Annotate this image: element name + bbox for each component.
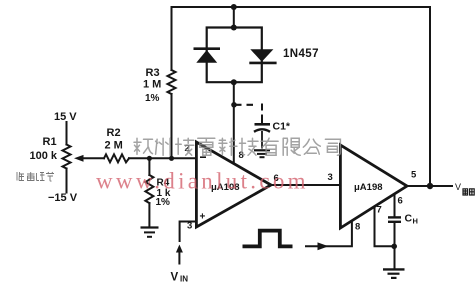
wire: wiper line to R2 bbox=[80, 157, 104, 159]
wire: diode bracket bbox=[207, 28, 262, 83]
wire: diode bridge stem top bbox=[233, 7, 235, 28]
svg-text:6: 6 bbox=[398, 196, 403, 207]
U1 minus bbox=[200, 156, 206, 158]
svg-text:−15 V: −15 V bbox=[48, 192, 78, 204]
wire: pin 3 input bbox=[180, 222, 197, 242]
svg-text:R2: R2 bbox=[107, 127, 121, 139]
svg-text:C1*: C1* bbox=[273, 121, 291, 133]
capacitor C1 plates bbox=[255, 123, 271, 126]
wire: U2 pin 6 to CH bbox=[394, 194, 396, 216]
svg-text:V: V bbox=[171, 272, 179, 284]
svg-text:7: 7 bbox=[377, 205, 382, 216]
VIN input arrow bbox=[176, 245, 183, 253]
pulse waveform symbol bbox=[243, 231, 293, 247]
wire: R1 bottom to -15V bbox=[66, 169, 68, 193]
sample command arrowhead bbox=[318, 242, 329, 250]
svg-text:8: 8 bbox=[355, 222, 360, 233]
ground for CH bbox=[383, 269, 405, 278]
svg-text:1%: 1% bbox=[156, 197, 171, 208]
svg-text:1 M: 1 M bbox=[143, 79, 161, 91]
svg-text:3: 3 bbox=[328, 172, 333, 183]
wire: left vertical above R3 bbox=[171, 7, 173, 70]
wire: right feedback vertical bbox=[429, 7, 431, 186]
op-amp U1 uA108 bbox=[196, 142, 271, 227]
wire: top feedback bus bbox=[172, 6, 431, 8]
ground for C1 bbox=[254, 150, 270, 157]
svg-text:R3: R3 bbox=[146, 67, 160, 79]
svg-text:R1: R1 bbox=[43, 136, 57, 148]
capacitor CH plates bbox=[388, 216, 401, 218]
diode D2 1N457 (right, pointing down) bbox=[249, 49, 276, 63]
svg-text:+: + bbox=[200, 212, 206, 223]
capacitor C1 dashed connection bbox=[236, 104, 253, 106]
wire: R4 to ground bbox=[148, 203, 150, 227]
wire: U2 output bbox=[407, 185, 452, 187]
svg-text:2 M: 2 M bbox=[105, 140, 123, 152]
svg-text:IN: IN bbox=[180, 275, 188, 284]
wire: R4 branch down bbox=[148, 158, 150, 175]
wire: diode bridge stem bottom to pin 8 bbox=[233, 82, 235, 163]
svg-text:100 k: 100 k bbox=[30, 150, 58, 162]
fake glyph: output chinese subscript bbox=[463, 189, 474, 195]
svg-text:μA198: μA198 bbox=[354, 182, 383, 193]
resistor R4 1k bbox=[145, 175, 153, 203]
svg-text:C: C bbox=[405, 213, 413, 225]
svg-text:www.dianlut.com: www.dianlut.com bbox=[96, 169, 309, 194]
wire: R3 bottom to summing node bbox=[171, 94, 173, 158]
watermark: small gray text (bias adjust) bbox=[17, 172, 54, 181]
svg-text:8: 8 bbox=[239, 150, 244, 161]
svg-text:1N457: 1N457 bbox=[283, 48, 319, 60]
resistor R3 1M bbox=[168, 70, 176, 94]
wire: U2 pin 8 down and left to sample input bbox=[306, 221, 352, 247]
ground for R4 bbox=[141, 228, 159, 237]
wire: CH bottom to ground bbox=[394, 223, 396, 269]
wire: U2 pin 7 down and right bbox=[375, 207, 395, 247]
svg-text:3: 3 bbox=[187, 221, 192, 232]
potentiometer R1 100k element bbox=[63, 145, 71, 169]
wire: U1 output to U2 input bbox=[271, 184, 340, 186]
svg-text:15 V: 15 V bbox=[54, 111, 77, 123]
wire: +15V to R1 bbox=[66, 122, 68, 145]
wiper arrow of R1 bbox=[74, 155, 84, 162]
resistor R2 2M bbox=[104, 154, 129, 162]
svg-text:H: H bbox=[413, 217, 418, 226]
junction node dots bbox=[231, 4, 237, 10]
svg-text:5: 5 bbox=[411, 170, 417, 181]
diode D1 1N457 (left, pointing up) bbox=[194, 49, 221, 63]
svg-text:1%: 1% bbox=[145, 93, 160, 104]
wire: R2 to inverting input pin 2 bbox=[129, 157, 197, 159]
op-amp U2 uA198 bbox=[340, 145, 407, 228]
svg-text:V: V bbox=[455, 182, 461, 192]
watermark: gray company text (fake CJK glyphs) bbox=[134, 138, 340, 155]
